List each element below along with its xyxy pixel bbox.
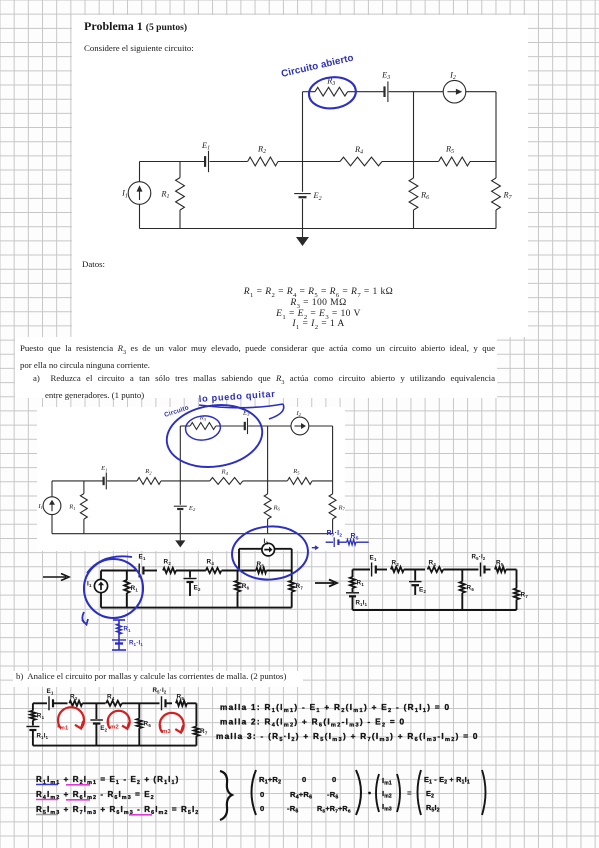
svg-text:malla 2: R4​(Im2​) + R6​(Im2​: malla 2: R4​(Im2​) + R6​(Im2​-Im3​) - E2… <box>220 718 405 729</box>
svg-text:R5: R5 <box>445 145 454 156</box>
arrow into hand-drawn circuit L <box>43 574 69 581</box>
svg-text:Circuito: Circuito <box>163 404 189 418</box>
annotation battery + resistor sketch blue <box>326 541 333 543</box>
resistor R6 branch C1 <box>413 92 415 178</box>
annotation blue curved arrow down-left <box>82 612 88 625</box>
battery E1 C2 <box>105 473 107 490</box>
svg-text:0: 0 <box>302 775 306 784</box>
resistor R7 HDR <box>516 570 518 589</box>
ground C2 <box>179 534 181 541</box>
svg-text:R1​: R1​ <box>357 580 365 587</box>
resistor R1 branch C2 <box>83 481 85 494</box>
svg-text:E2: E2 <box>188 505 196 512</box>
battery E1 B <box>48 696 50 710</box>
svg-text:E2​: E2​ <box>426 789 434 800</box>
wire HDR bottom <box>353 609 517 611</box>
resistor R2 C1 <box>248 157 278 166</box>
resistor R5 C2 <box>287 478 312 485</box>
svg-text:R1​: R1​ <box>131 585 139 592</box>
svg-text:R6: R6 <box>273 504 281 511</box>
resistor R2 HDL <box>163 568 176 573</box>
battery E1 HDL <box>138 564 140 578</box>
result right paren <box>482 770 486 815</box>
svg-text:R5​·I2​: R5​·I2​ <box>153 687 167 694</box>
svg-text:R1: R1 <box>160 190 169 201</box>
resistor R1 HDL <box>126 571 128 581</box>
resistor R7 branch C1 <box>495 92 497 178</box>
current source I1 C2 <box>43 497 61 515</box>
mesh current Im1 arrow <box>58 707 84 728</box>
svg-text:R5​: R5​ <box>496 560 504 567</box>
battery R5*I2 B <box>161 696 163 710</box>
wire C2 left edge <box>51 481 53 497</box>
matrix left paren <box>252 770 257 815</box>
resistor R6 B <box>138 703 140 718</box>
svg-text:R1: R1 <box>68 504 75 511</box>
svg-text:E1: E1 <box>201 141 210 152</box>
svg-text:R5​+R7​+R6​: R5​+R7​+R6​ <box>317 804 351 815</box>
svg-text:R1​I1​: R1​I1​ <box>37 733 49 740</box>
svg-text:R6​: R6​ <box>242 583 250 590</box>
matrix right paren <box>356 770 361 815</box>
svg-text:R4​: R4​ <box>207 559 215 566</box>
wire C1 bottom row <box>140 228 497 230</box>
svg-text:R5​I2​: R5​I2​ <box>426 803 440 814</box>
battery R5*I2 HDR <box>480 563 482 577</box>
resistor R6 HDR <box>461 570 463 582</box>
resistor R3 C2 <box>190 423 216 430</box>
svg-text:R7​: R7​ <box>521 592 529 599</box>
svg-text:R2​: R2​ <box>392 560 400 567</box>
arrow between hand-drawn circuits <box>315 580 337 587</box>
resistor R1 branch C1 <box>179 162 181 178</box>
resistor R1 + source B left branch <box>32 703 34 710</box>
wire HDL bottom <box>101 607 292 609</box>
battery E1 C1 <box>208 151 210 172</box>
underline magenta R6Im2 line C <box>129 814 152 816</box>
wire C2 bottom row <box>52 533 333 535</box>
battery E3 C2 <box>247 418 249 434</box>
svg-text:E2​: E2​ <box>194 585 201 592</box>
svg-text:malla 3: - (R5​·I2​) + R5​(Im: malla 3: - (R5​·I2​) + R5​(Im3​) + R7​(I… <box>216 732 479 743</box>
resistor R2 HDR <box>391 567 404 572</box>
svg-text:lo puedo quitar: lo puedo quitar <box>198 389 275 404</box>
annotation underline flourish <box>199 404 284 419</box>
svg-text:R1​I1​: R1​I1​ <box>356 600 368 607</box>
wire C2 mid row <box>52 480 103 482</box>
wire HDR top <box>353 569 371 571</box>
svg-text:R7: R7 <box>338 504 346 511</box>
svg-text:E1: E1 <box>100 465 107 472</box>
svg-text:I1: I1 <box>121 189 128 200</box>
svg-text:R6​: R6​ <box>467 585 475 592</box>
svg-text:R5​: R5​ <box>257 561 265 568</box>
svg-text:I1: I1 <box>37 503 43 510</box>
dot operator <box>368 792 371 795</box>
resistor R4 HDR <box>428 567 444 572</box>
resistor R6 HDL <box>237 571 239 581</box>
annotation small ellipse around R3 C2 <box>184 414 221 442</box>
svg-text:=: = <box>407 789 412 798</box>
resistor R5 B <box>176 701 187 706</box>
wire B top <box>33 702 47 704</box>
annotation ellipse around R3 C1 <box>307 75 357 111</box>
vector right paren <box>397 774 400 812</box>
svg-text:-R6​: -R6​ <box>327 790 339 801</box>
resistor R4 HDL <box>206 568 222 573</box>
battery E1 HDR <box>371 563 373 577</box>
wire HDL I1 branch <box>100 571 102 580</box>
svg-text:R4​+R6​: R4​+R6​ <box>290 790 312 801</box>
wire B bottom <box>33 745 197 747</box>
svg-text:R7: R7 <box>503 191 513 202</box>
svg-text:E1​ - E2​ + R1​I1​: E1​ - E2​ + R1​I1​ <box>424 775 470 786</box>
current source I1 HDL <box>94 579 107 592</box>
svg-text:I2: I2 <box>295 410 301 417</box>
svg-text:R2: R2 <box>257 145 266 156</box>
svg-text:R7​: R7​ <box>296 583 304 590</box>
svg-text:R5​: R5​ <box>177 694 185 701</box>
svg-text:R2​: R2​ <box>70 694 78 701</box>
resistor R3 C1 <box>315 87 348 96</box>
svg-text:R5​·I2​: R5​·I2​ <box>472 554 486 561</box>
wire C1 central vertical <box>302 92 304 162</box>
resistor R2 C2 <box>137 478 161 485</box>
svg-text:0: 0 <box>260 790 264 799</box>
svg-text:E2: E2 <box>313 191 322 202</box>
battery E2 C1 <box>294 193 311 195</box>
annotation blue ellipse around I2 <box>230 524 310 582</box>
svg-text:R7​: R7​ <box>200 728 208 735</box>
resistor R4 C1 <box>340 157 382 166</box>
svg-text:R1​+R2​: R1​+R2​ <box>259 775 281 786</box>
resistor R5 HDR <box>495 567 506 572</box>
svg-text:0: 0 <box>260 804 264 813</box>
resistor R2 B <box>69 701 82 706</box>
svg-text:R4​: R4​ <box>429 560 437 567</box>
resistor R7 branch C2 <box>332 426 334 494</box>
svg-text:E1​: E1​ <box>47 688 54 695</box>
annotation small arrow <box>312 546 318 550</box>
underline gray R5Im3 <box>36 814 58 816</box>
svg-text:Im1​: Im1​ <box>382 776 392 787</box>
svg-text:Im3​: Im3​ <box>382 802 392 813</box>
wire C2 central vertical <box>179 426 181 481</box>
current source I1 C1 <box>128 182 151 205</box>
ground C1 <box>302 229 304 238</box>
battery E2 HDR <box>414 570 416 581</box>
current source I2 C2 <box>291 417 309 435</box>
svg-text:E3: E3 <box>381 71 390 82</box>
resistor R4 B <box>106 701 122 706</box>
current source I2 HDL <box>262 543 275 556</box>
svg-text:-R6​: -R6​ <box>287 804 299 815</box>
svg-text:R5: R5 <box>292 468 300 475</box>
resistor R5 HDL <box>256 568 266 573</box>
underline magenta R2Im1 <box>66 784 90 786</box>
resistor R6 branch C2 <box>267 426 269 494</box>
underline magenta R6Im2 <box>66 799 90 801</box>
svg-text:R1​: R1​ <box>37 713 45 720</box>
svg-text:Circuito abierto: Circuito abierto <box>280 53 355 80</box>
svg-text:R1​: R1​ <box>124 626 132 633</box>
svg-text:R5​Im3​ + R7​Im3​ + R6​Im3​ -: R5​Im3​ + R7​Im3​ + R6​Im3​ - R6​Im2​ = … <box>36 805 199 816</box>
svg-text:E1​: E1​ <box>370 555 377 562</box>
wire C1 mid row <box>140 161 205 163</box>
svg-text:malla 1: R1​(Im1​) - E1​ + R2: malla 1: R1​(Im1​) - E1​ + R2​(Im1​) + E… <box>220 703 450 714</box>
mesh current Im2 arrow <box>108 711 130 729</box>
svg-text:R6: R6 <box>420 191 429 202</box>
mesh current Im3 arrow <box>160 713 184 733</box>
svg-text:R4: R4 <box>221 469 229 476</box>
svg-text:Im2​: Im2​ <box>382 789 392 800</box>
wire HDL I2 bump <box>238 549 240 571</box>
svg-text:E1​: E1​ <box>139 554 146 561</box>
svg-text:R4: R4 <box>354 145 363 156</box>
svg-text:I1​: I1​ <box>87 581 92 588</box>
battery E3 C1 <box>387 81 389 102</box>
svg-text:R2: R2 <box>144 468 152 475</box>
resistor R4 C2 <box>210 478 243 485</box>
curly brace <box>220 771 232 820</box>
battery E2 B <box>95 703 97 719</box>
wire C1 top branch <box>303 91 316 93</box>
svg-text:Im1​: Im1​ <box>57 720 69 732</box>
vector left paren <box>376 774 379 812</box>
wire HDL top <box>101 570 138 572</box>
resistor R7 B <box>195 703 197 726</box>
annotation blue series R1 with source R1*I1 <box>118 620 120 650</box>
svg-text:0: 0 <box>332 775 336 784</box>
svg-text:R6​: R6​ <box>144 721 152 728</box>
battery E2 C2 <box>174 505 187 507</box>
svg-text:I2: I2 <box>449 71 456 82</box>
annotation big ellipse around R3 E3 C2 <box>163 399 267 473</box>
annotation blue circle around I1 R1 <box>84 559 143 618</box>
resistor R1 + source HDR left branch <box>352 570 354 578</box>
battery E2 HDL <box>189 571 191 578</box>
resistor R7 HDL <box>291 571 293 581</box>
svg-text:R2​: R2​ <box>164 559 172 566</box>
svg-text:R4​: R4​ <box>107 694 115 701</box>
underline magenta R4Im2 <box>36 799 58 801</box>
current source I2 C1 <box>443 80 466 103</box>
svg-text:Im3​: Im3​ <box>160 723 172 735</box>
svg-text:I2​: I2​ <box>264 538 269 545</box>
svg-text:R5​: R5​ <box>351 533 359 542</box>
svg-text:R7​·I2​: R7​·I2​ <box>327 530 343 539</box>
svg-text:E2​: E2​ <box>419 587 426 594</box>
underline blue R1Im1 <box>36 784 58 786</box>
svg-text:R1​·I1​: R1​·I1​ <box>129 640 143 647</box>
resistor R5 C1 <box>439 157 471 166</box>
result left paren <box>418 770 422 815</box>
svg-text:Im2​: Im2​ <box>108 719 119 731</box>
wire C2 top branch <box>180 425 190 427</box>
wire C1 left edge <box>139 162 141 182</box>
